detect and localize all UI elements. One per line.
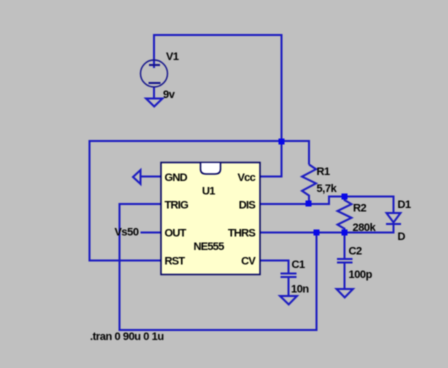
svg-text:.tran 0 90u 0 1u: .tran 0 90u 0 1u — [90, 331, 164, 343]
port arrow on GND pin — [133, 170, 141, 184]
ground under C1 — [280, 296, 297, 305]
IC notch — [201, 163, 221, 174]
svg-text:R2: R2 — [353, 203, 367, 215]
ground under V1 — [146, 99, 163, 107]
wire left loop to RST — [90, 140, 162, 261]
svg-text:Vs50: Vs50 — [115, 227, 139, 239]
svg-text:Vcc: Vcc — [238, 172, 256, 184]
svg-text:THRS: THRS — [228, 228, 256, 240]
wire Vs50 to OUT — [141, 232, 162, 234]
svg-text:GND: GND — [165, 172, 188, 184]
wire TRIG bottom loop — [120, 204, 317, 330]
svg-text:D1: D1 — [398, 199, 412, 211]
junction R1 bottom / DIS — [306, 201, 312, 207]
svg-text:NE555: NE555 — [194, 241, 225, 253]
resistor R2 — [338, 197, 352, 233]
svg-text:TRIG: TRIG — [165, 200, 189, 212]
ground under C2 — [337, 289, 354, 298]
wire C2 top lead — [344, 233, 346, 259]
voltage source V1 — [141, 60, 168, 87]
wire V1 bottom lead — [153, 87, 155, 99]
wire V1 top to Vcc — [154, 35, 282, 177]
svg-text:9v: 9v — [163, 89, 176, 101]
wire C1 to ground — [288, 278, 290, 296]
svg-text:U1: U1 — [202, 186, 215, 198]
svg-text:DIS: DIS — [239, 200, 256, 212]
capacitor C1 — [281, 274, 297, 278]
junction R2 top — [342, 194, 348, 200]
wire DIS to R2 top and D1 top — [260, 197, 394, 214]
wire mid horizontal to R1 — [90, 141, 310, 165]
svg-text:CV: CV — [241, 256, 256, 268]
op-amp-style IC body U1 NE555 — [161, 163, 260, 275]
svg-text:5,7k: 5,7k — [317, 183, 338, 195]
junction THRS / bottom loop — [314, 230, 320, 236]
svg-text:OUT: OUT — [165, 228, 187, 240]
junction top right — [279, 139, 285, 145]
resistor R1 — [302, 165, 316, 205]
wire GND pin stub — [141, 176, 162, 178]
svg-text:280k: 280k — [353, 222, 377, 234]
wire THRS row and D1 bottom — [260, 224, 394, 233]
svg-text:R1: R1 — [317, 166, 331, 178]
svg-text:100p: 100p — [349, 269, 373, 281]
svg-text:C2: C2 — [349, 246, 363, 258]
svg-text:C1: C1 — [292, 259, 306, 271]
svg-text:10n: 10n — [291, 284, 309, 296]
svg-text:V1: V1 — [166, 51, 179, 63]
svg-text:D: D — [398, 231, 406, 243]
wire CV to C1 — [260, 261, 289, 273]
capacitor C2 — [337, 259, 353, 263]
junction R2 bottom / C2 — [342, 230, 348, 236]
svg-text:RST: RST — [165, 256, 186, 268]
diode D1 — [386, 213, 401, 224]
wire C2 bottom lead — [344, 263, 346, 289]
